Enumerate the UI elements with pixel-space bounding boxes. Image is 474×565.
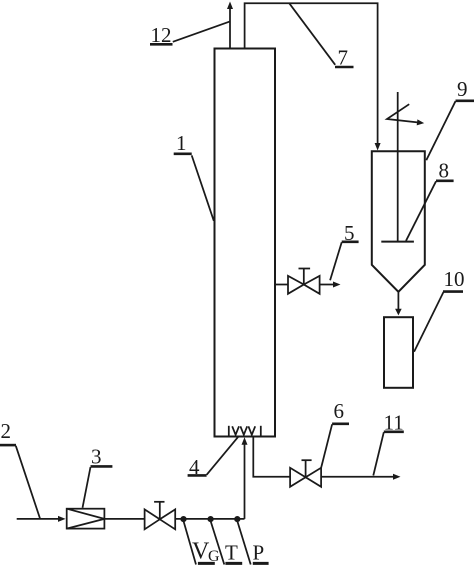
svg-text:1: 1 <box>176 131 187 155</box>
svg-text:6: 6 <box>334 399 345 423</box>
svg-text:8: 8 <box>439 159 450 183</box>
discharge valve 6 <box>290 460 321 487</box>
svg-text:T: T <box>225 541 238 565</box>
bottom discharge wire <box>253 437 290 477</box>
label 5 <box>330 221 359 280</box>
label 12 <box>150 21 230 46</box>
stirrer motor rotation arrow <box>387 104 424 125</box>
label 2 <box>0 419 40 518</box>
overhead line 7 (wire) <box>245 3 381 150</box>
reactor column 1 <box>215 49 276 437</box>
label 9 <box>426 77 474 160</box>
discharge outlet wire 11 <box>321 474 400 480</box>
wire filter to feed valve <box>104 518 144 520</box>
svg-text:10: 10 <box>444 267 465 291</box>
junction dot T <box>208 516 214 522</box>
valve 5 <box>288 269 320 294</box>
label 3 <box>83 445 113 508</box>
side outlet arrow wire <box>320 282 341 288</box>
label 7 <box>289 3 353 69</box>
filter / rotameter 3 <box>67 509 105 529</box>
svg-text:3: 3 <box>91 445 102 469</box>
svg-text:P: P <box>253 541 265 565</box>
label VG with tap wire <box>184 521 221 565</box>
vent line 12 (wire) <box>227 2 233 49</box>
label 11 <box>373 411 404 476</box>
riser wire into column <box>242 437 248 519</box>
junction dot VG <box>180 516 186 522</box>
inlet wire 2 <box>17 516 66 522</box>
separator outlet wire <box>395 292 402 316</box>
collection box 10 <box>384 317 413 388</box>
svg-text:9: 9 <box>457 77 468 101</box>
svg-text:2: 2 <box>1 419 12 443</box>
separator vessel 9 <box>372 151 425 291</box>
gas distributor 4 <box>229 426 261 437</box>
stirrer 8 <box>381 92 414 242</box>
feed valve <box>145 502 176 530</box>
junction dot P <box>234 516 240 522</box>
label 1 <box>174 131 214 221</box>
label 4 <box>188 437 239 479</box>
side outlet wire (to valve 5) <box>275 284 288 286</box>
label P with tap wire <box>237 521 268 565</box>
label 10 <box>414 267 464 352</box>
label 8 <box>406 159 454 241</box>
manifold wire <box>175 518 244 520</box>
label 6 <box>321 399 349 468</box>
label T with tap wire <box>211 521 243 565</box>
